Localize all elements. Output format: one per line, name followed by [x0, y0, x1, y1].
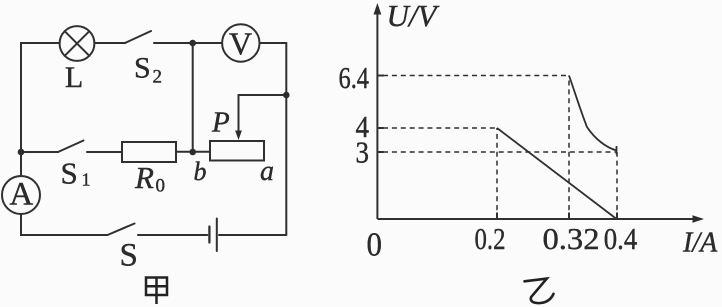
svg-text:0.2: 0.2 — [475, 221, 506, 256]
svg-text:V: V — [229, 25, 252, 61]
svg-text:3: 3 — [356, 135, 370, 170]
svg-text:0.4: 0.4 — [604, 221, 638, 256]
svg-text:0: 0 — [367, 227, 383, 264]
svg-text:U/V: U/V — [387, 0, 440, 33]
svg-text:L: L — [65, 61, 83, 94]
svg-text:0: 0 — [156, 176, 166, 197]
svg-text:S: S — [134, 52, 151, 85]
svg-text:I/A: I/A — [682, 228, 718, 259]
svg-text:R: R — [134, 160, 154, 195]
svg-text:2: 2 — [153, 67, 163, 88]
svg-text:S: S — [120, 238, 138, 274]
svg-text:1: 1 — [82, 170, 91, 190]
svg-text:b: b — [194, 157, 207, 186]
svg-text:S: S — [61, 156, 78, 191]
svg-text:a: a — [260, 156, 274, 187]
svg-text:A: A — [9, 177, 33, 213]
svg-text:P: P — [211, 107, 230, 139]
svg-text:6.4: 6.4 — [339, 60, 370, 95]
svg-text:0.32: 0.32 — [543, 221, 600, 256]
